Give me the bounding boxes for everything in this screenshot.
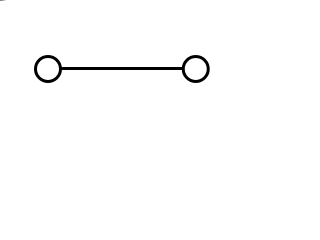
wire [48, 67, 196, 70]
terminal T1 (left node circle) [36, 57, 61, 82]
screen artifact top-left [0, 0, 6, 1]
terminal T2 (right node circle) [183, 57, 208, 82]
